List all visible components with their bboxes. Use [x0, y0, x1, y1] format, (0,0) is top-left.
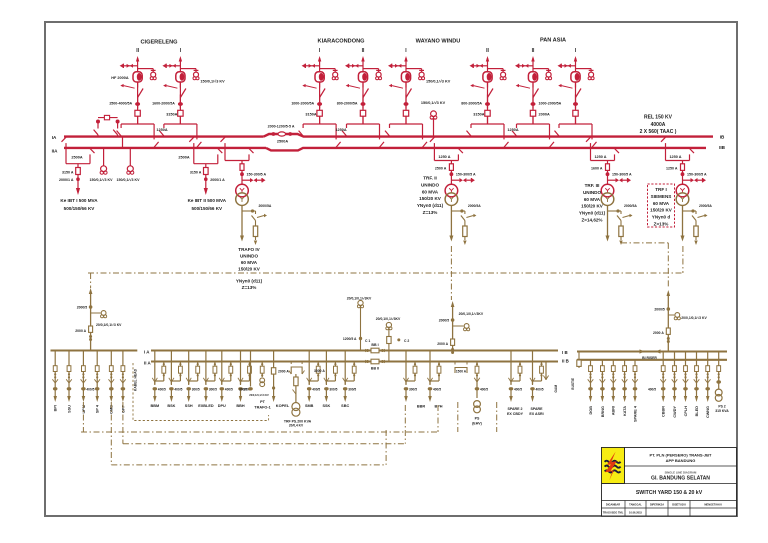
svg-text:1000-2000/5A: 1000-2000/5A [539, 102, 562, 106]
svg-text:Z=13%: Z=13% [654, 222, 669, 227]
svg-text:2500-4000/5A: 2500-4000/5A [109, 102, 132, 106]
svg-text:2000/1 A: 2000/1 A [210, 178, 225, 182]
svg-text:MENGETAHUI: MENGETAHUI [704, 503, 722, 507]
svg-text:DGB: DGB [589, 406, 593, 415]
svg-text:300/5: 300/5 [329, 387, 337, 391]
svg-text:YNyn0 (d11): YNyn0 (d11) [579, 211, 606, 216]
svg-text:KOPEL: KOPEL [276, 403, 290, 408]
svg-text:PS: PS [475, 417, 480, 421]
svg-text:3150 A: 3150 A [190, 171, 202, 175]
svg-text:SPARE 4: SPARE 4 [633, 405, 637, 422]
svg-text:3150 A: 3150 A [62, 171, 74, 175]
svg-text:2000/5A: 2000/5A [259, 204, 272, 208]
svg-text:DIGAMBAR: DIGAMBAR [606, 503, 620, 507]
svg-text:PT. PLN (PERSERO) TRANS-JBT: PT. PLN (PERSERO) TRANS-JBT [649, 453, 712, 458]
svg-text:60 MVA: 60 MVA [584, 197, 601, 202]
svg-text:I A: I A [144, 349, 150, 354]
svg-text:400/5: 400/5 [312, 387, 320, 391]
svg-text:2000/5A: 2000/5A [468, 204, 481, 208]
svg-text:C 1: C 1 [365, 339, 370, 343]
svg-text:SBC: SBC [341, 404, 349, 408]
svg-text:BB II: BB II [371, 367, 379, 371]
svg-text:2000 A: 2000 A [653, 331, 664, 335]
svg-text:1250A: 1250A [335, 128, 346, 132]
svg-text:TRF. III: TRF. III [585, 183, 600, 188]
svg-text:150/0,1/√3 KV: 150/0,1/√3 KV [117, 178, 141, 182]
svg-text:2000/1 A: 2000/1 A [59, 178, 74, 182]
svg-text:II B: II B [562, 359, 569, 364]
svg-text:150/0,1/√3 KV: 150/0,1/√3 KV [426, 80, 451, 84]
svg-text:4000A: 4000A [651, 122, 666, 128]
svg-text:SP 4: SP 4 [96, 404, 100, 413]
svg-text:CIGERELENG: CIGERELENG [141, 40, 178, 46]
svg-text:500/150/66 KV: 500/150/66 KV [64, 206, 96, 211]
svg-text:400/5: 400/5 [536, 387, 544, 391]
svg-text:BBH: BBH [236, 404, 244, 408]
svg-text:KIARACONDONG: KIARACONDONG [318, 39, 365, 45]
svg-text:TANGGAL: TANGGAL [629, 503, 642, 507]
svg-text:2500A: 2500A [277, 140, 288, 144]
svg-text:400/5: 400/5 [174, 387, 182, 391]
svg-text:3150A: 3150A [305, 113, 316, 117]
svg-text:20/0,1/0,1/√3 KV: 20/0,1/0,1/√3 KV [681, 316, 707, 320]
svg-text:HF 2000A: HF 2000A [111, 76, 129, 80]
svg-text:IIA: IIA [52, 148, 59, 153]
svg-text:2500A: 2500A [178, 156, 189, 160]
svg-text:EX ASRI: EX ASRI [529, 412, 543, 416]
svg-text:SSH: SSH [185, 404, 193, 408]
svg-text:150-300/5 A: 150-300/5 A [612, 173, 632, 177]
svg-text:CWDY: CWDY [673, 406, 677, 418]
svg-text:1200/5 A: 1200/5 A [343, 337, 357, 341]
svg-text:DISETUJUI: DISETUJUI [672, 503, 686, 507]
svg-text:400/5: 400/5 [514, 387, 522, 391]
svg-text:2000A: 2000A [539, 113, 550, 117]
svg-text:CPLH: CPLH [684, 406, 688, 417]
svg-text:10.06.2015: 10.06.2015 [629, 511, 643, 515]
svg-text:400/5: 400/5 [158, 387, 166, 391]
svg-text:2000/5: 2000/5 [654, 308, 664, 312]
svg-text:150-300/5 A: 150-300/5 A [687, 173, 707, 177]
svg-text:2 X 560( TAAC ): 2 X 560( TAAC ) [640, 129, 677, 135]
svg-text:EX CBDY: EX CBDY [507, 412, 524, 416]
svg-text:BRNG: BRNG [601, 406, 605, 417]
svg-text:SSU: SSU [67, 405, 71, 413]
svg-text:SINGLE LINE DIAGRAM: SINGLE LINE DIAGRAM [665, 471, 697, 475]
svg-text:SPARE: SPARE [530, 407, 543, 411]
svg-text:BBR: BBR [417, 405, 425, 409]
svg-text:2000/5A: 2000/5A [699, 204, 712, 208]
svg-text:APP BANDUNG: APP BANDUNG [666, 458, 696, 463]
svg-text:800-2000/5A: 800-2000/5A [337, 102, 358, 106]
svg-text:BUSTIE: BUSTIE [571, 378, 575, 390]
svg-text:1600-2000/5A: 1600-2000/5A [152, 102, 175, 106]
svg-text:500/150/66 KV: 500/150/66 KV [191, 206, 223, 211]
svg-text:IA: IA [52, 135, 57, 140]
svg-text:300/5: 300/5 [192, 387, 200, 391]
svg-text:60 MVA: 60 MVA [422, 189, 439, 194]
svg-text:150/0,1/√3 KV: 150/0,1/√3 KV [421, 101, 446, 105]
svg-text:2500A: 2500A [71, 156, 82, 160]
svg-text:PT: PT [260, 400, 266, 404]
svg-text:3150A: 3150A [166, 113, 177, 117]
svg-text:20/0,4 KV: 20/0,4 KV [289, 423, 304, 427]
svg-text:TRF I: TRF I [655, 187, 666, 192]
svg-text:I B: I B [562, 350, 568, 355]
svg-text:BPI: BPI [54, 405, 58, 411]
svg-text:2000 A: 2000 A [278, 369, 289, 373]
svg-text:Z=14,62%: Z=14,62% [581, 218, 602, 223]
svg-text:(EHV): (EHV) [472, 422, 483, 426]
svg-text:TRF. II: TRF. II [423, 176, 437, 181]
svg-text:GI. BANDUNG SELATAN: GI. BANDUNG SELATAN [651, 476, 710, 482]
svg-text:60 MVA: 60 MVA [241, 260, 258, 265]
svg-text:150/20 KV: 150/20 KV [419, 196, 442, 201]
svg-text:1500 A: 1500 A [456, 370, 467, 374]
svg-text:C 2: C 2 [404, 339, 409, 343]
svg-text:SIEMENS: SIEMENS [651, 194, 672, 199]
svg-text:20/0,1/0,1/√3 KV: 20/0,1/0,1/√3 KV [249, 393, 269, 397]
svg-text:BBM: BBM [150, 404, 159, 408]
svg-text:PS 2: PS 2 [718, 405, 725, 409]
svg-text:DPU: DPU [218, 404, 226, 408]
svg-text:SWITCH YARD 150 & 20 kV: SWITCH YARD 150 & 20 kV [636, 490, 703, 496]
svg-text:SSK: SSK [322, 404, 330, 408]
svg-text:150/20 KV: 150/20 KV [650, 208, 673, 213]
svg-text:CWNG: CWNG [706, 406, 710, 418]
svg-text:BPH: BPH [434, 405, 442, 409]
svg-text:20/0,1/0,1/√3KV: 20/0,1/0,1/√3KV [347, 297, 372, 301]
svg-text:GAM: GAM [554, 385, 558, 393]
svg-text:20/0,1/0,1/√3 KV: 20/0,1/0,1/√3 KV [96, 323, 122, 327]
svg-text:150-300/5 A: 150-300/5 A [247, 173, 267, 177]
svg-text:300/5: 300/5 [409, 387, 417, 391]
svg-text:1250 A: 1250 A [666, 166, 678, 170]
svg-text:EXBLED: EXBLED [198, 404, 214, 408]
svg-text:2000/5: 2000/5 [439, 319, 449, 323]
svg-text:150/20 KV: 150/20 KV [238, 267, 261, 272]
svg-text:PAN ASIA: PAN ASIA [540, 38, 566, 44]
svg-text:150-300/5 A: 150-300/5 A [456, 173, 476, 177]
svg-text:Ke IBT I 500 MVA: Ke IBT I 500 MVA [60, 198, 98, 203]
svg-text:CBBR: CBBR [662, 406, 666, 417]
svg-text:1250A: 1250A [507, 128, 518, 132]
svg-text:3150A: 3150A [473, 113, 484, 117]
svg-text:IB: IB [720, 135, 725, 140]
svg-text:400/5: 400/5 [225, 387, 233, 391]
svg-text:800-2000/5A: 800-2000/5A [461, 102, 482, 106]
svg-text:UNINDO: UNINDO [240, 254, 259, 259]
svg-text:150/0,1/√3 KV: 150/0,1/√3 KV [200, 80, 225, 84]
svg-text:400/5: 400/5 [648, 387, 656, 391]
svg-text:Ke IBT II 500 MVA: Ke IBT II 500 MVA [188, 198, 227, 203]
svg-text:UNINDO: UNINDO [583, 190, 602, 195]
svg-text:1600 A: 1600 A [591, 166, 603, 170]
svg-text:DIPERIKSA: DIPERIKSA [650, 503, 664, 507]
svg-text:315 KVA: 315 KVA [715, 409, 729, 413]
svg-text:YNyn0 (d11): YNyn0 (d11) [236, 279, 263, 284]
svg-text:Z=13%: Z=13% [242, 285, 257, 290]
svg-text:WAYANO WINDU: WAYANO WINDU [416, 39, 461, 45]
svg-text:1250 A: 1250 A [669, 155, 681, 159]
svg-text:KATA: KATA [623, 406, 627, 416]
svg-text:1250 A: 1250 A [594, 155, 606, 159]
svg-text:UNINDO: UNINDO [421, 182, 440, 187]
svg-text:2500 A: 2500 A [435, 166, 447, 170]
svg-text:1250A: 1250A [156, 128, 167, 132]
svg-text:300/5: 300/5 [209, 387, 217, 391]
svg-text:KABEL HEAD: KABEL HEAD [134, 368, 138, 391]
svg-text:TRAFO-1: TRAFO-1 [254, 406, 270, 410]
svg-text:YNyn0 (d11): YNyn0 (d11) [417, 203, 444, 208]
svg-text:2000 A: 2000 A [75, 329, 86, 333]
svg-text:2000/5: 2000/5 [77, 306, 87, 310]
svg-text:YNyn0 d: YNyn0 d [652, 215, 671, 220]
svg-text:Z=13%: Z=13% [423, 210, 438, 215]
svg-text:3000 A: 3000 A [314, 369, 325, 373]
svg-text:1250 A: 1250 A [438, 155, 450, 159]
svg-text:SMB: SMB [305, 404, 314, 408]
svg-text:400/5: 400/5 [86, 387, 94, 391]
svg-text:20/0,1/0,1/√3KV: 20/0,1/0,1/√3KV [376, 317, 401, 321]
svg-text:TRAGI BDG TML: TRAGI BDG TML [603, 511, 624, 515]
svg-text:60 MVA: 60 MVA [653, 201, 670, 206]
svg-text:TRAFO IV: TRAFO IV [238, 247, 260, 252]
svg-text:300/5: 300/5 [348, 387, 356, 391]
svg-text:ABRI: ABRI [612, 406, 616, 415]
svg-text:1000-2000/5A: 1000-2000/5A [291, 102, 314, 106]
svg-text:20/0,1/0,1/√3KV: 20/0,1/0,1/√3KV [459, 312, 484, 316]
svg-text:400/5: 400/5 [480, 387, 488, 391]
svg-text:400/5: 400/5 [433, 387, 441, 391]
svg-text:2000 A: 2000 A [437, 342, 448, 346]
svg-text:150/20 KV: 150/20 KV [581, 204, 604, 209]
svg-text:150/0,1/√3 KV: 150/0,1/√3 KV [90, 178, 114, 182]
svg-text:BLED: BLED [695, 406, 699, 417]
svg-text:BI RISER: BI RISER [642, 356, 657, 360]
svg-text:SPARE 2: SPARE 2 [507, 407, 522, 411]
svg-text:2000/5A: 2000/5A [624, 204, 637, 208]
svg-text:REL 150 KV: REL 150 KV [644, 115, 673, 121]
svg-text:BB I: BB I [371, 343, 378, 347]
svg-text:300/5: 300/5 [239, 387, 247, 391]
svg-text:BSK: BSK [167, 404, 175, 408]
svg-text:2000-1200/5-5 A: 2000-1200/5-5 A [268, 125, 295, 129]
svg-text:II A: II A [144, 360, 151, 365]
svg-text:IIB: IIB [719, 145, 726, 150]
